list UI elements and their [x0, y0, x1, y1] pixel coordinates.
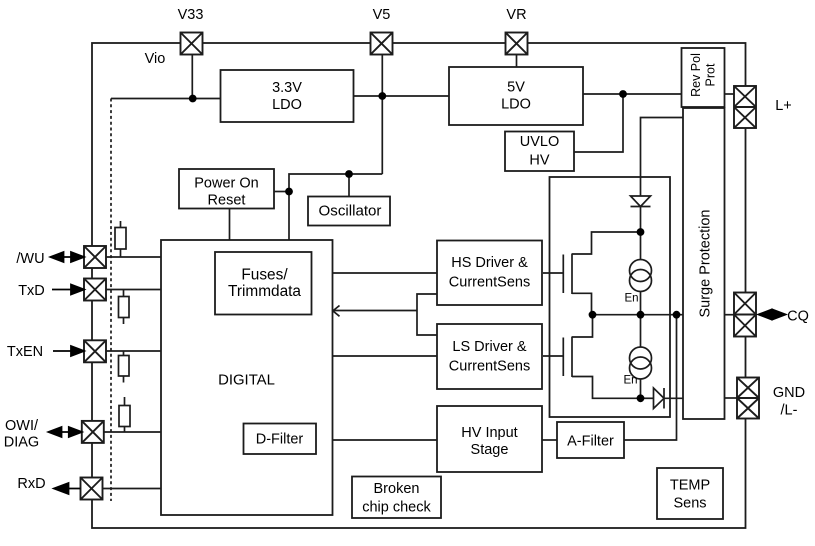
wire Surge to GND pin [725, 397, 738, 399]
wire RxD pin to DIGITAL [103, 488, 162, 490]
wire Surge to CQ pin [725, 314, 735, 316]
block Power On Reset [179, 169, 274, 209]
wire HS/LS driver feedback link [417, 294, 437, 335]
svg-text:LDO: LDO [272, 97, 302, 113]
svg-text:Rev Pol: Rev Pol [689, 53, 703, 97]
svg-text:HS Driver &: HS Driver & [451, 255, 528, 271]
svg-text:CurrentSens: CurrentSens [449, 275, 530, 291]
diode D2 [654, 388, 665, 409]
wire LS source [572, 377, 641, 399]
junction V5 rail [378, 92, 386, 100]
text Surge Protection (vertical) [698, 209, 714, 317]
arrow TxEN input [53, 346, 84, 356]
wire HS source [572, 293, 592, 314]
svg-text:V33: V33 [178, 7, 204, 23]
block HV Input Stage [437, 406, 542, 472]
junction LS drain node [589, 311, 597, 319]
wire DIGITAL to LS Driver [333, 355, 438, 357]
svg-text:3.3V: 3.3V [272, 80, 302, 96]
svg-text:/WU: /WU [16, 251, 44, 267]
arrow CQ bidirectional [759, 310, 786, 320]
svg-text:LS Driver &: LS Driver & [452, 339, 526, 355]
resistor R4 [119, 397, 130, 432]
label VR [506, 7, 526, 23]
svg-text:5V: 5V [507, 80, 525, 96]
svg-text:Vio: Vio [145, 51, 166, 67]
label V5 [373, 7, 391, 23]
svg-text:DIGITAL: DIGITAL [218, 373, 275, 389]
svg-text:Surge Protection: Surge Protection [698, 209, 714, 317]
text Rev Pol Prot (vertical) [689, 53, 718, 97]
svg-text:TEMP: TEMP [670, 478, 710, 494]
block HS Driver & CurrentSens [437, 241, 542, 306]
label OWI/DIAG [4, 418, 39, 451]
wire oscillator stub [348, 174, 350, 197]
svg-text:Fuses/: Fuses/ [241, 267, 288, 284]
text Power On Reset [194, 176, 258, 209]
svg-text:chip check: chip check [362, 500, 431, 516]
svg-text:TxEN: TxEN [7, 344, 43, 360]
wire V5 stub [381, 55, 383, 96]
text 3.3V LDO [272, 80, 302, 113]
svg-text:HV Input: HV Input [461, 425, 517, 441]
wire Vio rail [111, 98, 221, 100]
block DIGITAL [161, 240, 333, 515]
text 5V LDO [501, 80, 531, 113]
resistor R3 [119, 351, 130, 383]
block A-Filter [557, 422, 624, 458]
wire 5V LDO out to Rev Pol Prot [583, 93, 682, 95]
junction Vio [189, 95, 197, 103]
current source I2 [630, 347, 652, 379]
text A-Filter [567, 434, 614, 450]
svg-text:Sens: Sens [673, 496, 706, 512]
svg-text:CQ: CQ [787, 309, 809, 325]
label TxEN [7, 344, 43, 360]
svg-text:Reset: Reset [208, 193, 246, 209]
svg-text:En: En [624, 293, 638, 305]
svg-text:Prot: Prot [704, 63, 718, 86]
label L+ [775, 98, 792, 114]
text DIGITAL [218, 373, 275, 389]
current source I2 wire bottom [640, 379, 642, 398]
current source I1 wire bottom [640, 292, 642, 315]
pin VR [506, 33, 528, 55]
wire HV Input to A-Filter [542, 439, 557, 441]
wire 3.3V LDO out to 5V LDO in [354, 95, 450, 97]
label GND /L- [773, 385, 805, 419]
label CQ [787, 309, 809, 325]
wire V33 stub [191, 55, 193, 99]
svg-text:UVLO: UVLO [520, 134, 560, 150]
arrow RxD output [54, 483, 81, 494]
pin /WU [84, 246, 106, 268]
block D-Filter [244, 424, 317, 455]
label RxD [17, 476, 45, 492]
text UVLO HV [520, 134, 560, 169]
pin CQ [734, 293, 756, 337]
diode D1 [631, 196, 651, 207]
wire Rev Pol Prot to L+ [725, 93, 735, 95]
svg-text:L+: L+ [775, 98, 792, 114]
wire LS node to diode D2 [641, 397, 654, 399]
wire V5 down [381, 96, 383, 174]
resistor R2 [119, 290, 130, 325]
svg-text:DIAG: DIAG [4, 435, 39, 451]
pin V5 [371, 33, 393, 55]
wire feedback to DIGITAL with arrow [333, 306, 417, 317]
svg-text:GND: GND [773, 385, 805, 401]
block Broken chip check [352, 477, 441, 519]
text LS Driver & CurrentSens [449, 339, 530, 375]
svg-text:OWI/: OWI/ [5, 418, 39, 434]
block Rev Pol Prot [682, 48, 725, 107]
junction POR [285, 188, 293, 196]
pin RxD [81, 478, 103, 500]
label TxD [18, 283, 45, 299]
svg-text:HV: HV [529, 153, 549, 169]
text D-Filter [256, 432, 304, 448]
pin TxD [84, 279, 106, 301]
wire TxEN pin to DIGITAL [106, 350, 161, 352]
text HS Driver & CurrentSens [449, 255, 530, 291]
Vio dotted rail [110, 99, 112, 502]
wire POR bottom to DIGITAL [229, 209, 231, 241]
svg-text:CurrentSens: CurrentSens [449, 359, 530, 375]
pin V33 [181, 33, 203, 55]
arrow TxD input [52, 285, 84, 295]
wire CQ mid rail [592, 314, 684, 316]
text Fuses/Trimmdata [228, 267, 301, 301]
block UVLO HV [505, 132, 574, 172]
pin TxEN [84, 340, 106, 362]
wire OWI pin to DIGITAL [104, 431, 161, 433]
wire Surge to HS diode [641, 118, 684, 197]
svg-text:En: En [623, 375, 637, 387]
wire DIGITAL to HV Input [333, 439, 438, 441]
svg-text:Power On: Power On [194, 176, 258, 192]
svg-text:TxD: TxD [18, 283, 45, 299]
wire /WU pin to DIGITAL [106, 256, 161, 258]
text Broken chip check [362, 481, 431, 516]
current source I1 [630, 260, 652, 292]
text HV Input Stage [461, 425, 517, 458]
svg-text:VR: VR [506, 7, 526, 23]
svg-text:Oscillator: Oscillator [319, 203, 382, 220]
arrow /WU bidirectional [51, 252, 85, 262]
svg-text:D-Filter: D-Filter [256, 432, 304, 448]
pin OWI/DIAG [82, 421, 104, 443]
block Oscillator [308, 197, 390, 226]
wire VR stub [516, 54, 518, 67]
svg-text:Stage: Stage [471, 442, 509, 458]
label En HS [624, 293, 638, 305]
svg-text:LDO: LDO [501, 97, 531, 113]
wire supply to POR/Oscillator [289, 174, 382, 240]
svg-text:A-Filter: A-Filter [567, 434, 614, 450]
resistor R1 [115, 221, 126, 257]
wire CQ node to A-Filter [624, 315, 677, 440]
junction A-Filter riser [673, 311, 681, 319]
block 5V LDO [449, 67, 583, 125]
junction 5V out [619, 90, 627, 98]
label En LS [623, 375, 637, 387]
current source I2 wire top [640, 315, 642, 347]
wire DIGITAL to HS Driver [333, 272, 438, 274]
transistor HS MOSFET [543, 254, 572, 295]
wire D1 to HS drain node [640, 207, 642, 233]
block Fuses/Trimmdata [215, 252, 312, 315]
wire TxD pin to DIGITAL [106, 289, 161, 291]
text Oscillator [319, 203, 382, 220]
text TEMP Sens [670, 478, 710, 512]
junction CQ rail [637, 311, 645, 319]
svg-text:Trimmdata: Trimmdata [228, 283, 301, 300]
block 3.3V LDO [221, 70, 354, 122]
junction HS drain node [637, 228, 645, 236]
block Surge Protection [683, 108, 725, 419]
wire POR stub [274, 191, 289, 193]
wire HS drain [572, 232, 641, 254]
output stage enclosure box [550, 177, 671, 417]
wire UVLO link [574, 94, 623, 152]
block LS Driver & CurrentSens [437, 324, 542, 389]
label /WU [16, 251, 44, 267]
pin GND/L- [737, 378, 759, 419]
svg-text:/L-: /L- [781, 403, 798, 419]
chip outer border [92, 43, 746, 528]
current source I1 wire top [640, 232, 642, 260]
wire D2 to Surge [664, 397, 683, 399]
junction oscillator [345, 170, 353, 178]
label Vio [145, 51, 166, 67]
svg-text:Broken: Broken [374, 481, 420, 497]
label V33 [178, 7, 204, 23]
svg-text:V5: V5 [373, 7, 391, 23]
pin L+ [734, 86, 756, 128]
svg-text:RxD: RxD [17, 476, 45, 492]
transistor LS MOSFET [543, 337, 572, 378]
wire LS drain [572, 315, 593, 337]
junction LS source node [637, 394, 645, 402]
arrow OWI/DIAG bidirectional [49, 427, 82, 437]
block TEMP Sens [657, 468, 723, 519]
